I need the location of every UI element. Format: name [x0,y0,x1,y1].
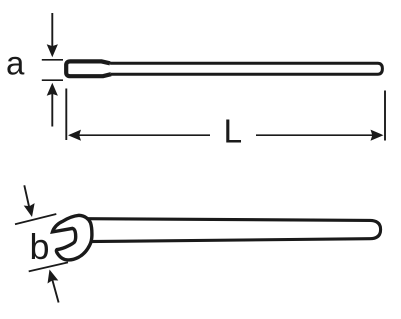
dimension b lower arrowhead [44,268,58,283]
dimension a down arrow stem [51,13,53,48]
dimension b lower arrow stem [52,278,59,302]
dimension L left arrowhead [68,130,81,141]
dimension L right arrowhead [371,130,384,141]
dimension b upper arrow stem [24,185,29,209]
wrench face view open-end head [53,215,92,260]
svg-text:L: L [224,114,243,151]
dimension L line right segment [256,134,381,136]
dimension b upper arrowhead [24,203,38,218]
dimension b lower tick [29,262,68,271]
dimension a lower tick [42,79,63,81]
dimension a down arrowhead [47,44,58,57]
wrench side view head fill [66,61,111,76]
dimension L left extension line [65,89,67,141]
dimension b upper tick [15,214,56,224]
wrench face view shaft [86,219,381,242]
dimension a up arrow stem [51,92,53,127]
svg-text:b: b [30,226,50,267]
wrench side view shaft [104,63,382,74]
wrench side view head outline [66,61,111,76]
dimension L line left segment [70,134,210,136]
svg-text:a: a [6,45,25,82]
dimension a up arrowhead [47,83,58,96]
dimension a upper tick [42,59,63,61]
dimension L right extension line [384,91,386,141]
